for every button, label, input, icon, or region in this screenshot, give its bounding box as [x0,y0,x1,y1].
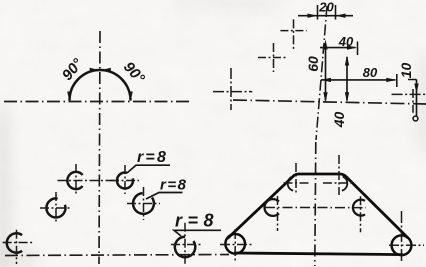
middle hole right arc [353,200,365,216]
corner hole left cross [220,229,252,261]
circle F [171,223,201,265]
dimension 80 tick [396,74,398,87]
circle E [127,187,160,220]
corner hole right cross [389,211,424,263]
svg-text:40: 40 [338,34,354,49]
svg-text:r=8: r=8 [137,149,168,166]
vertical centerline [99,31,100,264]
hole cross upper [280,19,306,49]
svg-text:r=8: r=8 [175,211,219,231]
circle D [110,165,139,194]
dimension 60 top arrow [323,40,327,50]
rounding arc fragment top-left [288,177,293,191]
dimension 60 line [325,44,327,101]
scan shading top mid [170,0,290,12]
leader r=8 bottom [174,211,221,237]
circle C [3,230,33,264]
rounding cross top-right [323,155,352,195]
dimension 10 tail loop [413,116,418,121]
main horizontal centerline [233,100,426,104]
svg-text:20: 20 [318,0,334,15]
corner hole left [225,234,245,254]
dimension 10 line [416,80,418,117]
dimension 40 vertical bottom arrow [345,92,349,102]
svg-text:10: 10 [398,63,414,79]
scan shading left edge [0,100,12,267]
dimension 40 tick [357,42,359,56]
dimension 60 bottom arrow [323,92,327,102]
arrowhead arc left end [67,92,72,102]
hole cross right outer [392,89,426,113]
leader r=8 middle [146,177,187,200]
arrowhead arc right end [128,92,133,102]
middle hole right cross vertical [360,196,362,232]
middle holes centerline [265,207,366,209]
arrowhead arc top pointing right [90,68,100,73]
svg-text:r=8: r=8 [160,177,187,194]
dimension 40 arrow [347,45,357,49]
rounding arc fragment top-right [342,177,347,191]
vertical centerline of plate [315,142,316,266]
svg-text:60: 60 [305,56,321,72]
horizontal centerline [4,101,190,103]
plate bottom edge [234,253,403,255]
rounding cross top-left [284,163,310,195]
dimension 80 right arrow [386,78,396,82]
circle A [58,164,120,195]
dimension 20 right arrow [336,14,346,18]
dimension 20 right tick [335,5,337,20]
bottom horizontal centerline [5,255,229,256]
dimension 40 vertical top arrow [345,56,349,66]
circle B [40,192,72,224]
main vertical centerline [316,6,327,140]
dimension 40 line [320,47,356,49]
dimension 40 vertical line [346,57,348,101]
middle hole left arc [265,199,279,216]
hole cross left outer [213,68,252,110]
middle hole left cross vertical [277,196,279,231]
dimension 20 left tick [317,5,319,20]
scan shading bottom-left corner [0,244,38,267]
dimension 20 left arrow [308,14,318,18]
dimension 80 left arrow [321,78,331,82]
arrowhead arc top pointing left [101,68,111,73]
hole cross middle [258,43,288,72]
svg-text:80: 80 [363,65,378,80]
dimension 80 line [321,79,396,81]
dimension 20 line [298,15,353,17]
corner hole right [392,235,412,255]
semicircle arc [70,70,131,101]
plate outline [228,174,409,239]
svg-text:40: 40 [331,112,347,129]
dimension 10 hook [408,79,417,81]
scan shading right edge [416,50,426,160]
leader r=8 top [127,149,170,173]
dimension 10 arrow [414,84,418,94]
